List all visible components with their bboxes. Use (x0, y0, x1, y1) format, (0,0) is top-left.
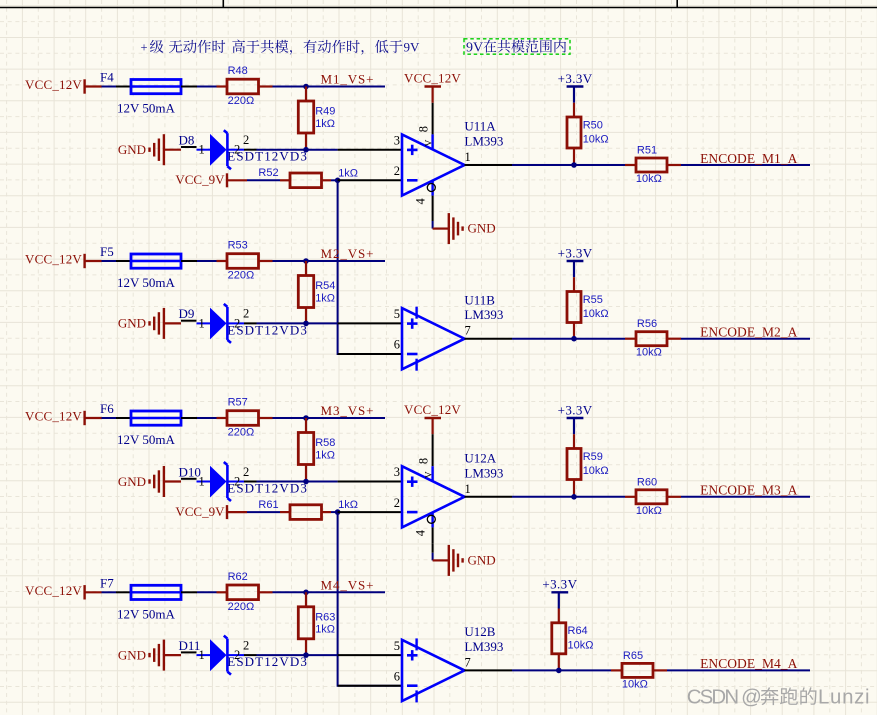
svg-text:2: 2 (234, 316, 240, 330)
wire VCC_9V to R52 (247, 179, 280, 181)
wire output net ENCODE_M3_A (681, 496, 810, 498)
svg-text:2: 2 (394, 496, 400, 510)
resistor R57 220 ohm (217, 397, 273, 439)
wire port to fuse F5 (102, 260, 117, 262)
svg-text:1: 1 (199, 316, 205, 330)
svg-text:LM393: LM393 (464, 134, 503, 149)
wire comparator output (465, 338, 626, 340)
svg-text:R61: R61 (258, 499, 278, 511)
svg-text:+3.3V: +3.3V (542, 577, 577, 592)
svg-text:R64: R64 (568, 625, 588, 637)
svg-text:10kΩ: 10kΩ (583, 308, 609, 320)
junction diode wire / R63 (303, 652, 309, 658)
svg-text:2: 2 (243, 465, 249, 479)
wire output net ENCODE_M2_A (681, 338, 810, 340)
resistor R56 10k series (625, 318, 681, 359)
svg-text:9V: 9V (466, 40, 483, 55)
svg-text:Lunzi: Lunzi (818, 687, 870, 709)
power port +3.3V (row 2) (558, 245, 593, 277)
power port GND (left, row 4) (118, 640, 181, 671)
svg-text:4: 4 (414, 529, 428, 536)
svg-text:U12A: U12A (464, 451, 496, 466)
junction diode wire / R54 (303, 321, 309, 327)
svg-text:R55: R55 (583, 294, 603, 306)
svg-text:+: + (141, 41, 148, 55)
svg-text:220Ω: 220Ω (228, 270, 255, 282)
svg-text:1kΩ: 1kΩ (315, 292, 335, 304)
resistor R50 10k pull-up (567, 103, 609, 165)
power port +3.3V (row 4) (542, 577, 577, 609)
resistor R59 10k pull-up (567, 434, 609, 497)
svg-text:220Ω: 220Ω (228, 601, 255, 613)
wire M4_VS+ node (273, 591, 386, 593)
svg-text:D11: D11 (179, 638, 201, 653)
resistor R62 220 ohm (217, 571, 273, 613)
svg-text:M2_VS+: M2_VS+ (321, 246, 375, 261)
svg-text:220Ω: 220Ω (228, 95, 255, 107)
svg-text:F4: F4 (100, 70, 114, 85)
junction at M3_VS+ / R58 (303, 415, 309, 421)
svg-text:5: 5 (394, 639, 400, 653)
power port VCC_12V (left, row 2) (25, 252, 102, 269)
svg-text:F6: F6 (100, 401, 114, 416)
svg-text:2: 2 (234, 143, 240, 157)
svg-text:2: 2 (394, 164, 400, 178)
op-amp U12B LM393 (338, 624, 504, 702)
fuse F6 12V 50mA (100, 401, 197, 447)
svg-text:M3_VS+: M3_VS+ (321, 403, 375, 418)
svg-text:1kΩ: 1kΩ (315, 624, 335, 636)
wire R61 to - input (331, 511, 338, 513)
note box: 9V在共模范围内 (464, 39, 570, 56)
svg-text:12V 50mA: 12V 50mA (117, 101, 176, 116)
svg-text:10kΩ: 10kΩ (636, 347, 662, 359)
svg-text:GND: GND (118, 142, 146, 157)
svg-text:ENCODE_M2_A: ENCODE_M2_A (700, 325, 797, 340)
wire fuse to resistor R57 (197, 417, 217, 419)
svg-text:R52: R52 (258, 167, 278, 179)
svg-text:10kΩ: 10kΩ (583, 134, 609, 146)
wire diode to comparator + input (257, 149, 338, 151)
resistor R64 10k pull-up (552, 609, 594, 671)
svg-text:5: 5 (394, 307, 400, 321)
junction diode wire / R49 (303, 147, 309, 153)
svg-text:GND: GND (118, 316, 146, 331)
power port +3.3V (row 1) (558, 71, 593, 103)
svg-text:4: 4 (414, 198, 428, 205)
wire comparator output (465, 669, 612, 671)
power port VCC_12V (left, row 1) (25, 77, 102, 94)
TVS diode D10 ESDT12VD3 (179, 462, 308, 501)
svg-text:9V: 9V (404, 40, 421, 55)
svg-text:10kΩ: 10kΩ (636, 173, 662, 185)
fuse F4 12V 50mA (100, 70, 197, 116)
svg-text:7: 7 (465, 655, 471, 669)
svg-text:6: 6 (394, 338, 400, 352)
wire fuse to resistor R62 (197, 591, 217, 593)
svg-text:GND: GND (468, 221, 496, 236)
sheet border top line with zone ticks (0, 0, 877, 8)
svg-text:1kΩ: 1kΩ (315, 118, 335, 130)
power port GND (left, row 1) (118, 134, 181, 165)
wire - node down to next comparator (338, 512, 402, 686)
svg-text:CSDN @: CSDN @ (687, 687, 760, 709)
svg-text:LM393: LM393 (464, 307, 503, 322)
svg-text:R56: R56 (637, 318, 657, 330)
svg-text:ENCODE_M3_A: ENCODE_M3_A (700, 483, 797, 498)
svg-text:VCC_12V: VCC_12V (25, 252, 82, 267)
svg-text:VCC_12V: VCC_12V (404, 71, 461, 86)
svg-text:12V 50mA: 12V 50mA (117, 432, 176, 447)
resistor R65 10k series (611, 650, 667, 691)
svg-text:V: V (425, 140, 435, 147)
svg-text:ENCODE_M1_A: ENCODE_M1_A (700, 151, 797, 166)
svg-text:1: 1 (199, 143, 205, 157)
svg-text:1: 1 (199, 475, 205, 489)
junction at M2_VS+ / R54 (303, 258, 309, 264)
wire M3_VS+ node (273, 417, 386, 419)
power port GND (left, row 2) (118, 308, 181, 339)
svg-text:7: 7 (465, 324, 471, 338)
svg-text:LM393: LM393 (464, 639, 503, 654)
junction at M1_VS+ / R49 (303, 84, 309, 90)
svg-text:10kΩ: 10kΩ (636, 505, 662, 517)
wire output net ENCODE_M4_A (667, 669, 810, 671)
wire comparator output (465, 164, 626, 166)
svg-text:U12B: U12B (464, 624, 495, 639)
wire - node down to next comparator (338, 180, 402, 354)
resistor R49 1k pull-down (298, 87, 335, 150)
wire R52 to - input (331, 179, 338, 181)
wire diode to comparator + input (257, 481, 338, 483)
svg-text:R50: R50 (583, 119, 603, 131)
wire VCC_9V to R61 (247, 511, 280, 513)
svg-text:1: 1 (465, 482, 471, 496)
svg-text:1: 1 (199, 648, 205, 662)
svg-text:2: 2 (234, 475, 240, 489)
svg-text:8: 8 (416, 458, 430, 464)
TVS diode D11 ESDT12VD3 (179, 636, 308, 675)
wire port to fuse F6 (102, 417, 117, 419)
svg-text:LM393: LM393 (464, 465, 503, 480)
svg-text:R48: R48 (228, 65, 248, 77)
svg-text:V: V (425, 471, 435, 478)
power port VCC_12V (left, row 3) (25, 409, 102, 426)
power port GND (below U11A) (433, 213, 496, 244)
power port GND (left, row 3) (118, 466, 181, 497)
svg-text:1: 1 (465, 150, 471, 164)
svg-text:U11B: U11B (464, 292, 495, 307)
wire M1_VS+ node (273, 86, 386, 88)
svg-text:2: 2 (243, 133, 249, 147)
svg-text:D9: D9 (179, 306, 195, 321)
wire VCC_12V to pin 8 (432, 433, 434, 435)
svg-text:VCC_12V: VCC_12V (25, 583, 82, 598)
svg-text:1kΩ: 1kΩ (315, 449, 335, 461)
power port +3.3V (row 3) (558, 402, 593, 434)
svg-text:R51: R51 (637, 145, 657, 157)
junction output / R64 (556, 668, 562, 674)
wire port to fuse F7 (102, 591, 117, 593)
svg-text:GND: GND (468, 552, 496, 567)
power port VCC_9V (row 1) (175, 172, 247, 187)
junction diode wire / R58 (303, 479, 309, 485)
svg-text:GND: GND (118, 474, 146, 489)
wire VCC_12V to pin 8 (432, 102, 434, 104)
svg-text:VCC_9V: VCC_9V (175, 172, 225, 187)
svg-text:2: 2 (234, 648, 240, 662)
power port VCC_12V (left, row 4) (25, 583, 102, 600)
svg-text:1kΩ: 1kΩ (338, 167, 358, 179)
power port VCC_12V (above U11A) (404, 71, 461, 103)
junction at - input node (335, 178, 341, 184)
svg-text:D8: D8 (179, 133, 195, 148)
svg-text:M1_VS+: M1_VS+ (321, 72, 375, 87)
resistor R54 1k pull-down (298, 261, 335, 323)
svg-text:6: 6 (394, 669, 400, 683)
fuse F5 12V 50mA (100, 244, 197, 290)
wire fuse to resistor R48 (197, 86, 217, 88)
svg-text:3: 3 (394, 133, 400, 147)
wire pin 4 to GND (432, 212, 434, 229)
svg-text:F7: F7 (100, 576, 114, 591)
svg-text:R49: R49 (315, 106, 335, 118)
svg-text:1kΩ: 1kΩ (338, 499, 358, 511)
svg-text:R59: R59 (583, 451, 603, 463)
resistor R58 1k pull-down (298, 418, 335, 482)
fuse F7 12V 50mA (100, 576, 197, 622)
svg-text:10kΩ: 10kΩ (622, 678, 648, 690)
power port VCC_9V (row 3) (175, 504, 247, 519)
resistor R48 220 ohm (217, 65, 273, 107)
svg-text:R65: R65 (623, 650, 643, 662)
svg-text:R63: R63 (315, 611, 335, 623)
svg-text:3: 3 (394, 465, 400, 479)
TVS diode D9 ESDT12VD3 (179, 304, 308, 343)
svg-text:GND: GND (118, 647, 146, 662)
svg-text:10kΩ: 10kΩ (568, 639, 594, 651)
resistor R52 1k series (258, 167, 358, 188)
op-amp U11B LM393 (338, 292, 504, 370)
svg-text:F5: F5 (100, 244, 114, 259)
svg-text:R62: R62 (228, 571, 248, 583)
power port GND (below U12A) (433, 545, 496, 576)
op-amp U12A LM393 (338, 435, 504, 544)
svg-text:12V 50mA: 12V 50mA (117, 606, 176, 621)
svg-text:VCC_12V: VCC_12V (404, 402, 461, 417)
svg-text:+3.3V: +3.3V (558, 71, 593, 86)
svg-text:VCC_12V: VCC_12V (25, 409, 82, 424)
junction output / R55 (571, 336, 577, 342)
svg-text:220Ω: 220Ω (228, 427, 255, 439)
svg-text:M4_VS+: M4_VS+ (321, 577, 375, 592)
svg-text:+3.3V: +3.3V (558, 402, 593, 417)
junction output / R50 (571, 162, 577, 168)
svg-text:ENCODE_M4_A: ENCODE_M4_A (700, 656, 797, 671)
resistor R63 1k pull-down (298, 592, 335, 655)
svg-text:R60: R60 (637, 476, 657, 488)
op-amp U11A LM393 (338, 103, 504, 212)
resistor R60 10k series (625, 476, 681, 517)
wire M2_VS+ node (273, 260, 386, 262)
resistor R51 10k series (625, 145, 681, 186)
svg-text:R58: R58 (315, 437, 335, 449)
svg-text:VCC_9V: VCC_9V (175, 504, 225, 519)
wire fuse to resistor R53 (197, 260, 217, 262)
wire diode to comparator + input (257, 654, 338, 656)
svg-text:R54: R54 (315, 280, 335, 292)
svg-text:R57: R57 (228, 397, 248, 409)
wire port to fuse F4 (102, 86, 117, 88)
wire output net ENCODE_M1_A (681, 164, 810, 166)
note text: +级 无动作时 高于共模，有动作时，低于9V (141, 40, 421, 55)
junction at - input node (335, 509, 341, 515)
svg-text:+3.3V: +3.3V (558, 245, 593, 260)
svg-text:2: 2 (243, 638, 249, 652)
svg-text:U11A: U11A (464, 119, 496, 134)
TVS diode D8 ESDT12VD3 (179, 130, 308, 169)
svg-text:12V 50mA: 12V 50mA (117, 275, 176, 290)
junction output / R59 (571, 494, 577, 500)
wire comparator output (465, 496, 626, 498)
resistor R55 10k pull-up (567, 277, 609, 339)
svg-text:R53: R53 (228, 240, 248, 252)
svg-text:10kΩ: 10kΩ (583, 465, 609, 477)
resistor R53 220 ohm (217, 240, 273, 282)
power port VCC_12V (above U12A) (404, 402, 461, 434)
wire diode to comparator + input (257, 322, 338, 324)
svg-text:2: 2 (243, 307, 249, 321)
svg-text:8: 8 (416, 126, 430, 132)
junction at M4_VS+ / R63 (303, 590, 309, 596)
wire pin 4 to GND (432, 544, 434, 561)
resistor R61 1k series (258, 499, 358, 519)
watermark CSDN @奔跑的Lunzi (decorative) (687, 687, 871, 709)
svg-text:VCC_12V: VCC_12V (25, 77, 82, 92)
